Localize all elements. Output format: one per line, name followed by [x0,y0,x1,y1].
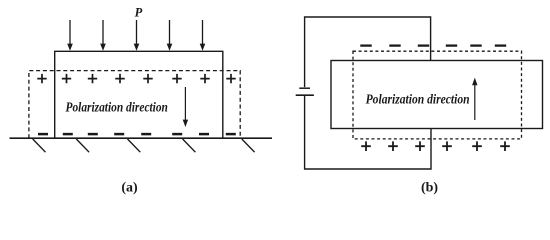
svg-text:Polarization direction: Polarization direction [366,91,470,106]
svg-text:P: P [135,6,143,20]
svg-text:(b): (b) [421,181,438,196]
svg-text:(a): (a) [121,181,138,196]
svg-text:Polarization direction: Polarization direction [66,99,168,114]
